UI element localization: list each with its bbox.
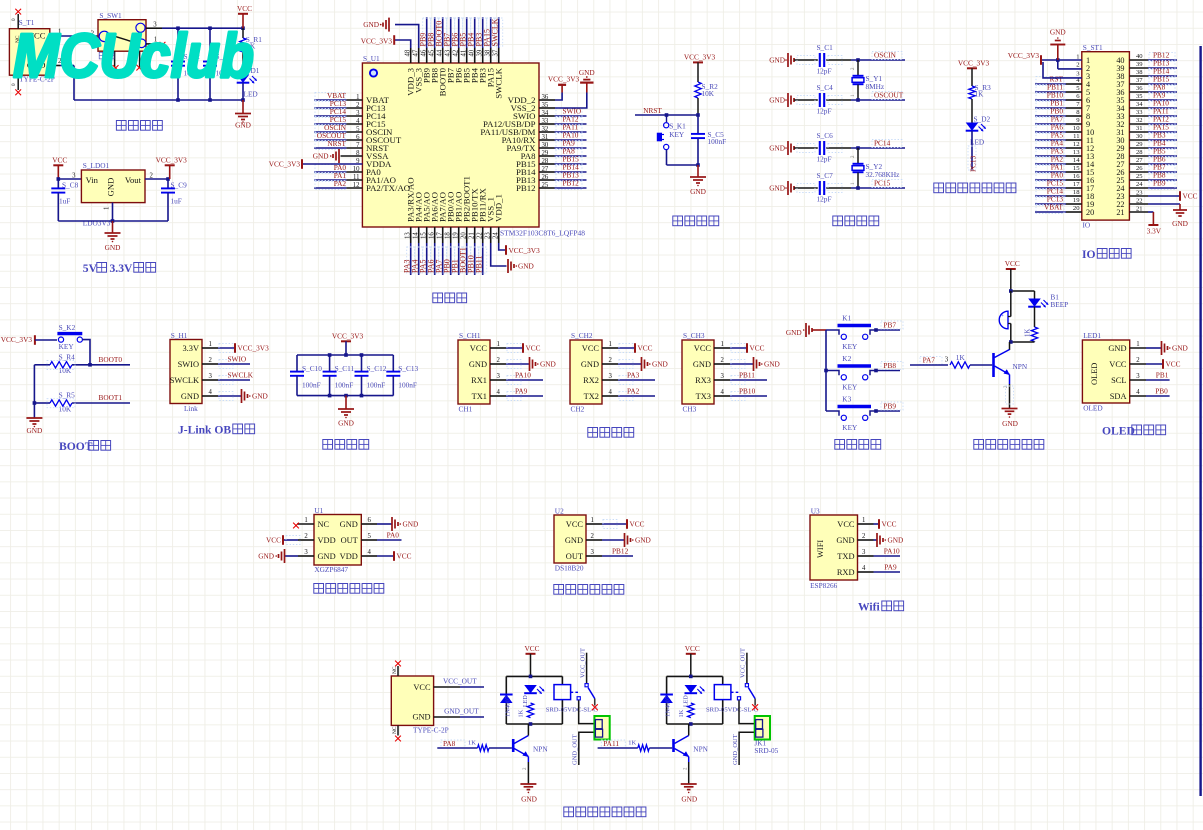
U1 pin 2 VDD VCC xyxy=(266,533,314,545)
svg-text:GND: GND xyxy=(26,426,42,435)
svg-text:VCC: VCC xyxy=(750,344,765,353)
chip pin 44 wire net BOOT0 xyxy=(435,17,447,63)
CH2 pin 1 VCC xyxy=(602,341,653,353)
wire GND_OUT net from T2 xyxy=(434,707,484,718)
svg-text:GND: GND xyxy=(469,360,487,369)
resistor R5 10K BOOT1 xyxy=(34,391,130,414)
svg-text:8MHz: 8MHz xyxy=(866,82,885,91)
svg-text:1: 1 xyxy=(104,207,111,210)
svg-text:GND: GND xyxy=(521,795,537,804)
svg-text:SDA: SDA xyxy=(1110,392,1127,401)
chip pin 47 VSS_3 to GND xyxy=(363,18,419,63)
svg-text:15: 15 xyxy=(1073,165,1080,172)
svg-text:12pF: 12pF xyxy=(817,107,832,116)
svg-text:GND: GND xyxy=(252,392,268,401)
svg-text:4: 4 xyxy=(862,565,866,572)
connector S_CH3 body xyxy=(682,331,714,414)
IO pin 19 wire net PC13 xyxy=(1035,195,1082,206)
power VCC_3V3 filter xyxy=(332,331,364,355)
svg-text:GND: GND xyxy=(579,68,595,77)
svg-text:3: 3 xyxy=(591,549,595,556)
chip pin 16 wire net PA6 xyxy=(427,227,439,275)
svg-text:VCC: VCC xyxy=(266,536,281,545)
svg-text:GND: GND xyxy=(581,360,599,369)
logo MCUclub xyxy=(13,22,254,91)
svg-text:VCC: VCC xyxy=(638,344,653,353)
svg-text:U3: U3 xyxy=(811,507,820,516)
wire T1 pin1 VCC to switch xyxy=(50,29,98,38)
svg-text:GND: GND xyxy=(412,713,430,722)
svg-text:XGZP6847: XGZP6847 xyxy=(314,565,348,574)
switch caption kai-guan xyxy=(99,52,114,59)
svg-text:S_C4: S_C4 xyxy=(817,83,834,92)
chip pin 35 VSS_2 to GND xyxy=(539,68,595,108)
svg-text:GND: GND xyxy=(681,795,697,804)
svg-text:GND: GND xyxy=(318,552,336,561)
svg-text:J-Link OB: J-Link OB xyxy=(178,424,231,437)
svg-text:1N4007: 1N4007 xyxy=(504,695,511,717)
button K1 net PB7 xyxy=(826,314,903,352)
capacitor C6 12pF row PC14 xyxy=(769,131,905,164)
svg-text:VBAT: VBAT xyxy=(1044,203,1064,212)
svg-text:GND: GND xyxy=(363,20,379,29)
resistor R4 10K BOOT0 xyxy=(34,352,130,375)
svg-text:SRD-05VDC-SL-C: SRD-05VDC-SL-C xyxy=(706,707,759,714)
svg-text:OLED: OLED xyxy=(1090,363,1099,385)
chip pin 10 wire net PA0 xyxy=(314,163,362,174)
IO pin 9 wire net PA7 xyxy=(1035,115,1082,126)
svg-text:PB12: PB12 xyxy=(563,179,580,188)
svg-text:11: 11 xyxy=(1073,133,1079,140)
svg-text:10K: 10K xyxy=(59,404,72,413)
wire LDO bottom rail xyxy=(58,203,168,223)
svg-text:S_C1: S_C1 xyxy=(817,43,834,52)
svg-text:PB11: PB11 xyxy=(739,370,755,379)
relay coil SRD-05VDC-SL-C PA11 xyxy=(706,685,759,714)
CH3 pin 1 VCC xyxy=(714,341,765,353)
relay contact VCC_OUT PA8 xyxy=(571,648,598,710)
svg-text:GND: GND xyxy=(652,360,668,369)
svg-text:GND: GND xyxy=(540,360,556,369)
svg-text:IO: IO xyxy=(1083,221,1091,230)
chip pin 41 wire net PB5 xyxy=(459,17,471,63)
svg-text:1: 1 xyxy=(721,341,724,348)
IO pin 27 wire net PB6 xyxy=(1129,155,1177,166)
svg-text:BOOT1: BOOT1 xyxy=(99,393,123,402)
svg-text:LED: LED xyxy=(523,695,529,707)
IO pin 6 wire net PB10 xyxy=(1035,91,1082,102)
transistor Q1 NPN alarm xyxy=(994,342,1028,384)
bottom rail wire xyxy=(74,98,245,102)
IO pin 4 wire net RST xyxy=(1035,75,1082,86)
IO pin 12 wire net PA4 xyxy=(1035,139,1082,150)
svg-text:TYPE-C-2P: TYPE-C-2P xyxy=(413,726,449,735)
caption chuan-kou-dian-lu serial circuit xyxy=(588,428,634,438)
IO pin 25 wire net PB8 xyxy=(1129,171,1177,182)
capacitor C10 100nF filter xyxy=(290,355,322,396)
resistor R2 10K xyxy=(695,62,718,115)
resistor 1K alarm vertical xyxy=(1025,307,1038,342)
svg-text:VCC: VCC xyxy=(685,644,700,653)
svg-text:VCC_3V3: VCC_3V3 xyxy=(332,331,364,340)
svg-text:28: 28 xyxy=(1136,149,1143,156)
svg-text:TX1: TX1 xyxy=(472,392,487,401)
wire GND_OUT PA11 xyxy=(732,732,755,765)
svg-text:100nF: 100nF xyxy=(302,380,321,389)
CH2 pin 3 net PA3 xyxy=(602,370,655,384)
svg-text:1K: 1K xyxy=(1025,329,1032,337)
chip pin 40 wire net PB4 xyxy=(467,17,479,63)
svg-text:RX3: RX3 xyxy=(695,376,711,385)
chip pin 48 VDD_3 to VCC_3V3 xyxy=(361,35,411,63)
svg-text:VCC: VCC xyxy=(1005,259,1020,268)
svg-text:VCC_3V3: VCC_3V3 xyxy=(1008,51,1040,60)
svg-text:SWCLK: SWCLK xyxy=(494,67,504,98)
svg-text:PB9: PB9 xyxy=(883,401,896,410)
svg-text:NRST: NRST xyxy=(327,139,346,148)
IO pin 39 wire net PB13 xyxy=(1129,59,1177,70)
svg-text:GND_OUT: GND_OUT xyxy=(572,734,579,765)
capacitor C12 100nF filter xyxy=(355,355,387,396)
sheet border right xyxy=(1199,46,1201,796)
caption dian-yuan-dian-lu power circuit xyxy=(116,121,162,131)
IO pin 38 wire net PB14 xyxy=(1129,67,1177,78)
chip right pin names xyxy=(480,94,548,193)
svg-text:36: 36 xyxy=(1136,85,1143,92)
svg-text:GND: GND xyxy=(769,144,785,153)
svg-text:PB11: PB11 xyxy=(475,256,484,274)
power VCC_3V3 LDO output xyxy=(156,155,188,179)
IO pin 30 wire net PB3 xyxy=(1129,131,1177,142)
svg-text:VCC: VCC xyxy=(413,683,431,692)
svg-text:24: 24 xyxy=(1136,181,1143,188)
svg-text:VCC_3V3: VCC_3V3 xyxy=(684,52,716,61)
svg-text:0: 0 xyxy=(11,18,17,21)
svg-text:VDD: VDD xyxy=(340,552,358,561)
svg-text:PC15: PC15 xyxy=(874,179,891,188)
caption cheng-xu-yun-xing-zhi-shi-deng indicator xyxy=(934,183,1016,193)
chip pin 4 wire net PC15 xyxy=(314,115,362,126)
caption wen-du-jian-ce temperature module xyxy=(554,585,624,595)
svg-text:S_C13: S_C13 xyxy=(398,364,418,373)
svg-text:26: 26 xyxy=(1136,165,1143,172)
IO pin 22 ground xyxy=(1129,198,1188,228)
svg-text:PA9: PA9 xyxy=(884,562,897,571)
svg-text:18: 18 xyxy=(1073,189,1080,196)
ground GND relay PA8 xyxy=(520,762,537,804)
svg-text:GND: GND xyxy=(769,96,785,105)
svg-text:SWCLK: SWCLK xyxy=(170,376,199,385)
svg-text:PA2: PA2 xyxy=(627,386,640,395)
svg-text:100nF: 100nF xyxy=(708,137,727,146)
power VCC top right xyxy=(237,4,252,28)
connector S_CH2 body xyxy=(570,331,602,414)
wire NRST net xyxy=(635,106,700,117)
svg-text:LED: LED xyxy=(683,695,689,707)
chip pin 8 VSSA ground xyxy=(313,149,363,163)
chip pin 20 wire net BOOT1 xyxy=(459,227,471,275)
svg-text:LED1: LED1 xyxy=(1083,331,1101,340)
svg-text:NPN: NPN xyxy=(693,745,708,754)
svg-text:2: 2 xyxy=(862,533,866,540)
svg-text:5V: 5V xyxy=(83,262,98,275)
svg-text:20: 20 xyxy=(1073,205,1080,212)
svg-text:GND: GND xyxy=(888,536,904,545)
chip pin 6 wire net OSCOUT xyxy=(314,131,362,142)
svg-text:PB1: PB1 xyxy=(1156,370,1169,379)
IO pin 24 wire net PB9 xyxy=(1129,179,1177,190)
svg-text:3: 3 xyxy=(721,373,725,380)
svg-text:STM32F103C8T6_LQFP48: STM32F103C8T6_LQFP48 xyxy=(500,229,585,238)
chip pin 7 wire net NRST xyxy=(314,139,362,150)
caption sheng-guang-bao-jing alarm circuit xyxy=(974,440,1044,450)
ground GND relay PA11 xyxy=(681,762,698,804)
chip pin 17 wire net PA7 xyxy=(435,227,447,275)
svg-text:S_C12: S_C12 xyxy=(367,364,387,373)
IO ground GND top xyxy=(1050,28,1082,69)
svg-text:3: 3 xyxy=(862,549,866,556)
U3 pin 2 GND xyxy=(858,533,904,547)
svg-text:GND: GND xyxy=(106,178,116,197)
IO pin 1 VCC_3V3 power xyxy=(1008,51,1082,65)
svg-text:2: 2 xyxy=(591,533,595,540)
IO pin 32 wire net PA12 xyxy=(1129,115,1177,126)
chip pin 11 wire net PA1 xyxy=(314,171,362,182)
chip pin 42 wire net PB6 xyxy=(451,17,463,63)
display LED1 OLED body xyxy=(1082,331,1129,413)
svg-text:K3: K3 xyxy=(842,395,851,404)
svg-text:TX2: TX2 xyxy=(584,392,599,401)
svg-text:2: 2 xyxy=(609,357,613,364)
wire base net PA11 with 1K xyxy=(598,739,673,751)
LED relay PA11 xyxy=(683,685,705,707)
connector T1 TYPE-C-2P xyxy=(9,18,54,83)
svg-text:6: 6 xyxy=(368,517,372,524)
button K2 net PB8 xyxy=(826,354,903,392)
svg-text:KEY: KEY xyxy=(59,342,75,351)
IO pin 34 wire net PA10 xyxy=(1129,99,1177,110)
IO pin 18 wire net PC14 xyxy=(1035,187,1082,198)
U1 pin 6 GND xyxy=(361,517,418,531)
svg-text:GND: GND xyxy=(235,121,251,130)
svg-text:1K: 1K xyxy=(468,740,476,747)
LED D2 indicator xyxy=(966,115,991,147)
ground GND buttons xyxy=(786,323,826,337)
svg-text:19: 19 xyxy=(1073,197,1080,204)
capacitor C8 1uF xyxy=(51,179,78,221)
OLED pin 4 net PB0 xyxy=(1130,386,1170,396)
svg-text:PB10: PB10 xyxy=(739,386,756,395)
svg-text:32: 32 xyxy=(1136,117,1143,124)
svg-text:S_C6: S_C6 xyxy=(817,131,834,140)
IO pin 21 3.3V power xyxy=(1129,206,1161,236)
LED B1 branch xyxy=(1028,291,1068,309)
U2 pin 1 VCC xyxy=(586,517,645,529)
main chip U1 STM32F103C8T6 body xyxy=(362,54,585,238)
ground GND BOOT xyxy=(26,418,42,435)
svg-text:K1: K1 xyxy=(842,314,851,323)
LED relay PA8 xyxy=(523,685,545,707)
IO header inner pin numbers xyxy=(1086,56,1125,217)
svg-text:VCC: VCC xyxy=(837,520,855,529)
svg-text:PA2: PA2 xyxy=(334,179,347,188)
svg-text:GND: GND xyxy=(1108,344,1126,353)
svg-text:4: 4 xyxy=(209,389,213,396)
svg-text:KEY: KEY xyxy=(842,342,858,351)
J-Link pin 3 SWCLK net xyxy=(202,370,254,384)
svg-text:GND: GND xyxy=(105,243,121,252)
J-Link pin 2 SWIO net xyxy=(202,354,250,368)
svg-text:Link: Link xyxy=(184,404,198,413)
T2 top no-connect pin xyxy=(392,661,401,676)
caption fu-wei-dian-lu reset circuit xyxy=(673,216,719,226)
svg-text:VCC: VCC xyxy=(470,344,488,353)
svg-text:PA9: PA9 xyxy=(515,386,528,395)
switch SW1 xyxy=(98,11,146,51)
svg-text:S_CH3: S_CH3 xyxy=(683,331,705,340)
svg-text:PB7: PB7 xyxy=(883,320,896,329)
svg-text:S_ST1: S_ST1 xyxy=(1083,43,1103,52)
svg-text:OLED: OLED xyxy=(1083,404,1102,413)
IO pin 28 wire net PB5 xyxy=(1129,147,1177,158)
svg-text:SWIO: SWIO xyxy=(228,354,247,363)
relay coil SRD-05VDC-SL-C PA8 xyxy=(546,685,599,714)
resistor 1K relay PA8 xyxy=(518,703,534,718)
svg-text:S_C8: S_C8 xyxy=(62,181,79,190)
svg-text:PA3: PA3 xyxy=(627,370,640,379)
svg-text:S_C9: S_C9 xyxy=(171,181,188,190)
U2 pin 2 GND xyxy=(586,533,651,547)
svg-text:1: 1 xyxy=(497,341,500,348)
svg-text:S_C7: S_C7 xyxy=(817,171,834,180)
svg-text:NPN: NPN xyxy=(533,745,548,754)
svg-text:VCC: VCC xyxy=(397,552,412,561)
IO pin 31 wire net PA15 xyxy=(1129,123,1177,134)
svg-text:3: 3 xyxy=(209,373,213,380)
transistor NPN relay PA8 xyxy=(513,724,548,762)
svg-text:RX2: RX2 xyxy=(583,376,599,385)
svg-text:S_D2: S_D2 xyxy=(974,115,991,124)
chip pin 26 wire net PB13 xyxy=(539,171,587,182)
svg-text:VCC_3V3: VCC_3V3 xyxy=(548,74,580,83)
ground GND reset xyxy=(690,163,706,196)
svg-text:+: + xyxy=(1001,314,1004,319)
IO pin 5 wire net PB11 xyxy=(1035,83,1082,94)
svg-text:13: 13 xyxy=(1073,149,1080,156)
svg-text:GND: GND xyxy=(769,184,785,193)
svg-text:1: 1 xyxy=(209,341,212,348)
svg-text:1N4007: 1N4007 xyxy=(665,695,672,717)
svg-text:PB9: PB9 xyxy=(1153,179,1166,188)
caption zhu-xin-pian main chip xyxy=(433,293,467,303)
svg-text:3: 3 xyxy=(72,173,76,180)
chip pin 19 wire net PB1 xyxy=(451,227,463,275)
caption ji-dian-qi relay control circuit xyxy=(564,807,646,817)
svg-text:10: 10 xyxy=(1073,125,1080,132)
svg-text:VCC: VCC xyxy=(524,644,539,653)
OLED pin 3 net PB1 xyxy=(1130,370,1170,380)
wire VCC_OUT net from T2 xyxy=(434,676,484,687)
OLED pin 1 GND xyxy=(1130,341,1188,355)
svg-text:PA10: PA10 xyxy=(515,370,531,379)
svg-text:IO: IO xyxy=(1082,248,1096,261)
svg-text:31: 31 xyxy=(1136,125,1143,132)
svg-text:VCC_3V3: VCC_3V3 xyxy=(156,155,188,164)
wire switch pin3 to top rail xyxy=(146,21,245,30)
svg-text:GND: GND xyxy=(1002,419,1018,428)
svg-text:GND: GND xyxy=(565,536,583,545)
chip pin 13 wire net PA3 xyxy=(403,227,415,275)
svg-text:SWIO: SWIO xyxy=(178,360,199,369)
svg-text:GND: GND xyxy=(258,552,274,561)
resistor R3 1K xyxy=(969,68,991,122)
svg-text:U1: U1 xyxy=(314,506,323,515)
wire alarm top node xyxy=(1009,289,1035,293)
svg-text:4: 4 xyxy=(368,549,372,556)
caption BOOT dian-lu xyxy=(59,440,111,453)
svg-text:TX3: TX3 xyxy=(696,392,711,401)
caption an-jian-dian-lu button circuit xyxy=(835,440,881,450)
svg-text:100nF: 100nF xyxy=(398,380,417,389)
svg-text:4: 4 xyxy=(721,389,725,396)
svg-text:ESP8266: ESP8266 xyxy=(810,581,838,590)
wire GND_OUT PA8 xyxy=(572,732,595,765)
power VCC alarm xyxy=(1005,259,1020,291)
T2 bottom no-connect pin xyxy=(392,725,401,741)
svg-text:22: 22 xyxy=(1136,198,1143,205)
chip pin 9 VDDA VCC_3V3 xyxy=(269,159,363,169)
svg-text:GND: GND xyxy=(1172,344,1188,353)
svg-text:RXD: RXD xyxy=(837,568,855,577)
relay pole contact PA11 xyxy=(737,697,754,724)
svg-text:GND: GND xyxy=(1050,28,1066,37)
relay contact VCC_OUT PA11 xyxy=(731,648,758,710)
chip pin 45 wire net PB8 xyxy=(427,17,439,63)
chip pin 1 wire net VBAT xyxy=(314,91,362,102)
svg-text:PA2/TX/AO: PA2/TX/AO xyxy=(366,183,410,193)
svg-text:OLED: OLED xyxy=(1102,425,1135,438)
svg-text:33: 33 xyxy=(1136,109,1143,116)
chip pin 31 wire net PA10 xyxy=(539,131,587,142)
IO pin 16 wire net PA0 xyxy=(1035,171,1082,182)
svg-text:SCL: SCL xyxy=(1111,376,1126,385)
svg-text:VCC_3V3: VCC_3V3 xyxy=(269,159,301,168)
transistor NPN relay PA11 xyxy=(674,724,709,762)
caption Wifi mo-kuai module xyxy=(858,601,904,614)
svg-text:BOOT: BOOT xyxy=(59,440,93,453)
connector T2 TYPE-C-2P output xyxy=(391,676,448,735)
caption ya-li-jian-ce pressure module xyxy=(314,584,384,594)
svg-text:17: 17 xyxy=(1073,181,1080,188)
chip top pin names rotated xyxy=(404,49,503,99)
CH2 pin 4 net PA2 xyxy=(602,386,655,400)
U3 pin 1 VCC xyxy=(858,517,897,529)
IO pin 35 wire net PA9 xyxy=(1129,91,1177,102)
chip pin 3 wire net PC14 xyxy=(314,107,362,118)
svg-text:VCC_3V3: VCC_3V3 xyxy=(958,58,990,67)
svg-text:GND: GND xyxy=(836,536,854,545)
power VCC relay PA11 xyxy=(685,644,700,677)
switch pin1 stub with no-connect xyxy=(146,37,165,48)
svg-text:21: 21 xyxy=(1136,206,1143,213)
svg-text:12pF: 12pF xyxy=(817,195,832,204)
svg-text:10K: 10K xyxy=(702,89,715,98)
svg-text:1uF: 1uF xyxy=(59,197,70,206)
svg-text:OUT: OUT xyxy=(566,552,583,561)
IO pin 11 wire net PA5 xyxy=(1035,131,1082,142)
svg-text:GND: GND xyxy=(518,262,534,271)
U3 pin 3 TXD net PA10 xyxy=(858,546,901,556)
